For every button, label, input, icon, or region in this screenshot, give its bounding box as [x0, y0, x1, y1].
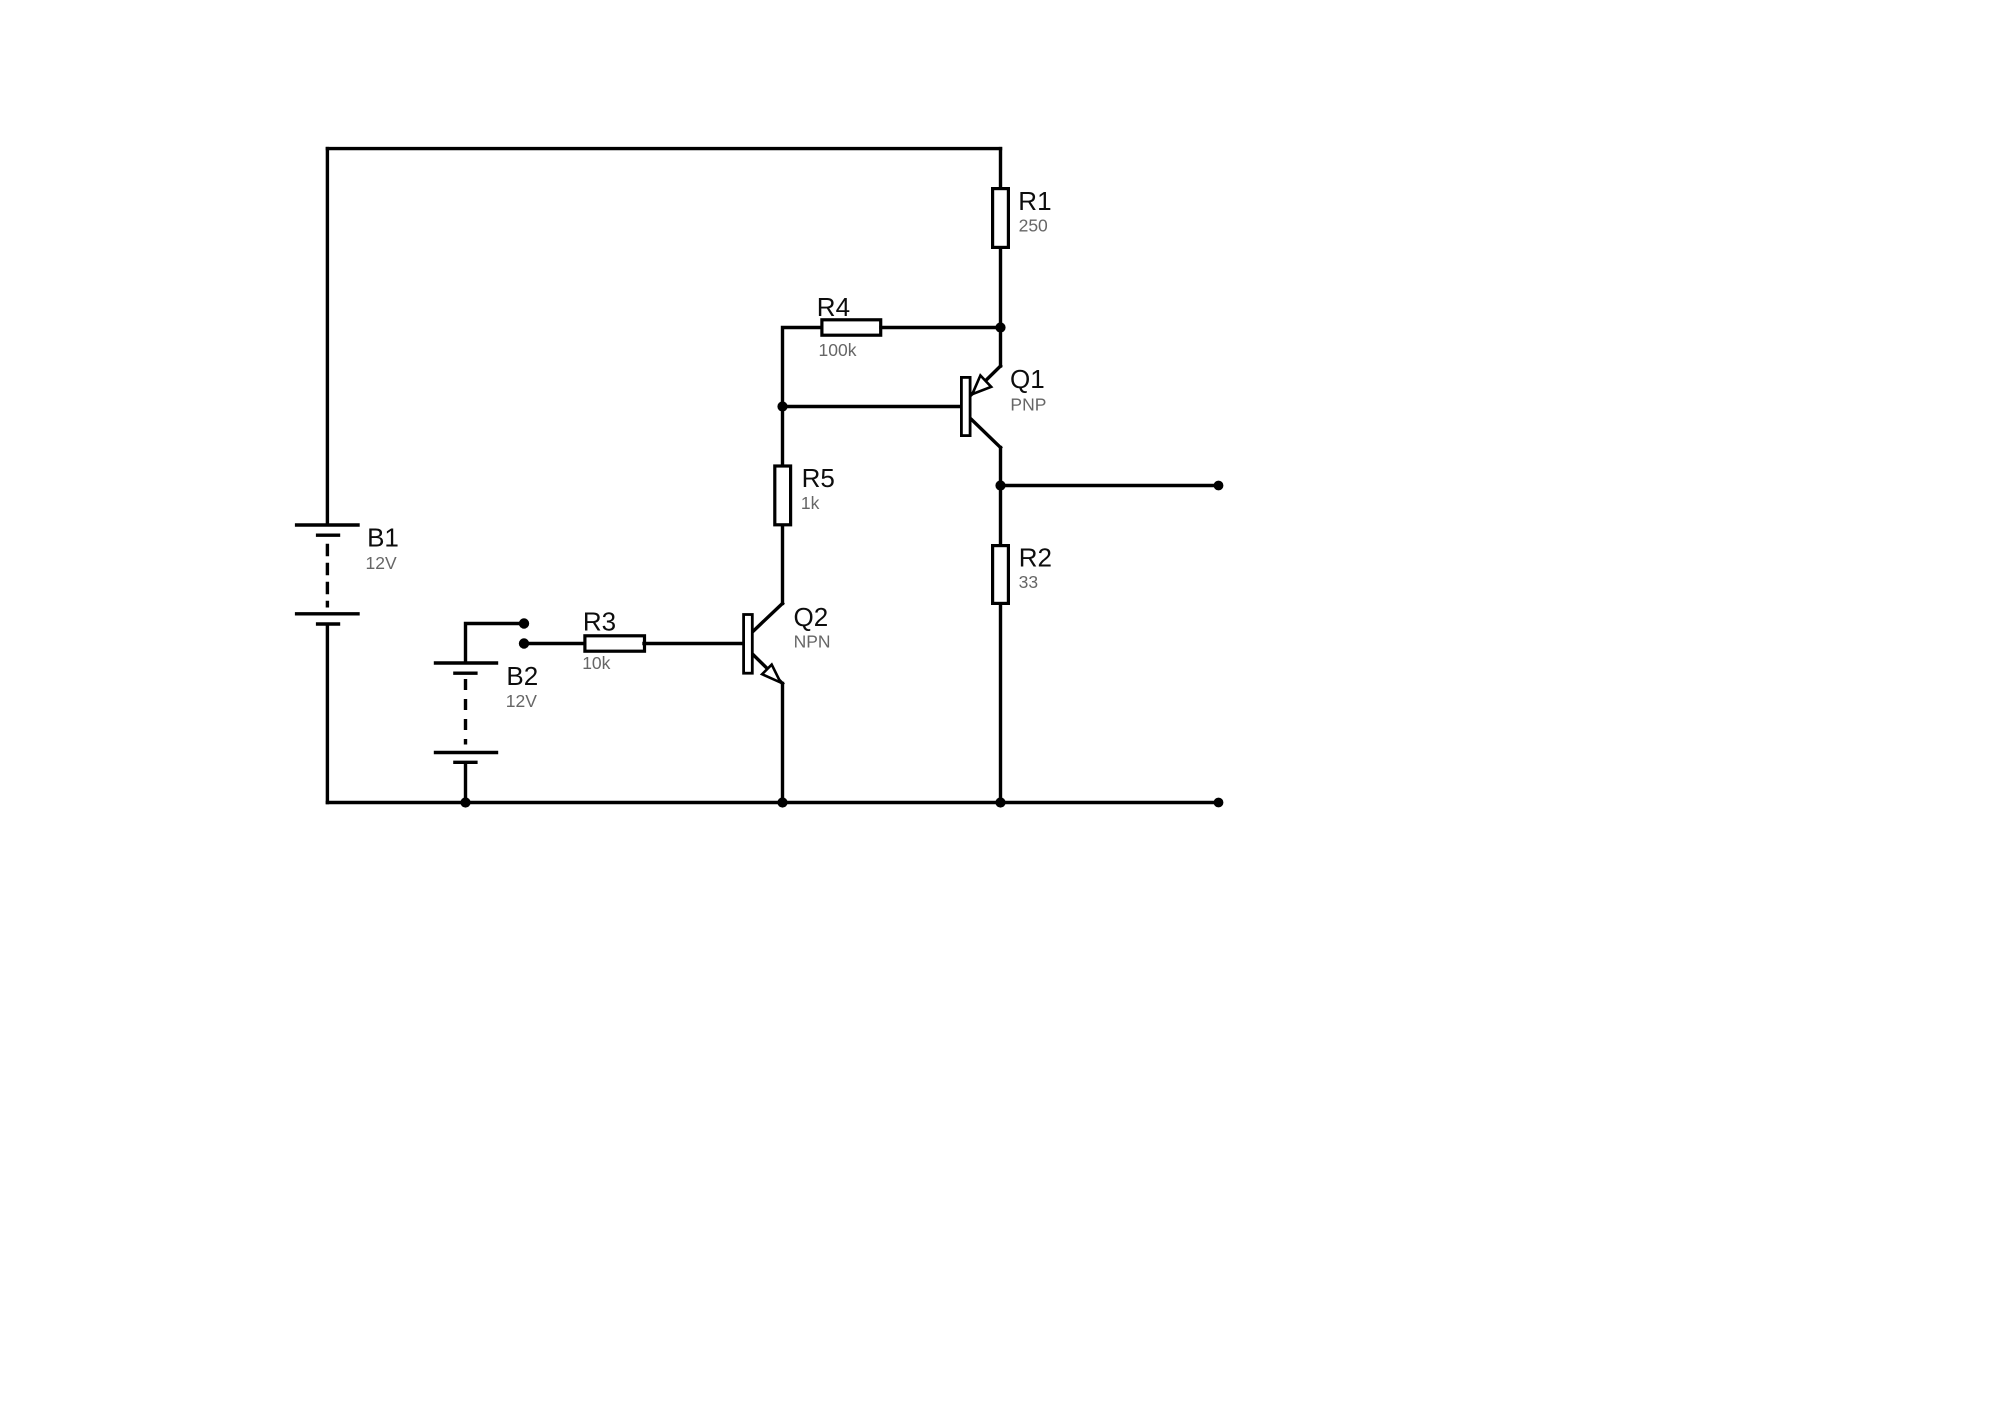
node C junction dot output — [995, 480, 1005, 490]
svg-text:R4: R4 — [817, 292, 850, 322]
svg-text:250: 250 — [1019, 216, 1048, 236]
label B2 value 12V — [506, 691, 537, 711]
resistor R4 — [822, 320, 881, 335]
label R3 value 10k — [582, 653, 610, 673]
label R4 value 100k — [819, 340, 857, 360]
node terminal dot output bottom — [1214, 798, 1224, 808]
resistor R5 — [775, 466, 791, 525]
wire R2 top stub — [999, 486, 1002, 547]
svg-text:R5: R5 — [802, 463, 835, 493]
label R5 — [802, 463, 835, 493]
wire R2 bottom — [999, 605, 1002, 803]
wire Q1 emitter vertical — [999, 328, 1002, 367]
wire top rail — [327, 147, 1000, 150]
svg-text:Q2: Q2 — [794, 602, 829, 632]
label Q1 — [1010, 364, 1045, 394]
label R1 — [1018, 186, 1051, 216]
resistor R2 — [993, 546, 1009, 604]
node junction dot Q2 emitter bottom — [777, 797, 787, 807]
wire R4 left corner — [783, 328, 823, 407]
wire R1 top stub — [999, 149, 1002, 189]
wire R3 right to Q2 base — [644, 642, 743, 645]
svg-text:12V: 12V — [366, 553, 397, 573]
label Q2 type NPN — [794, 632, 831, 652]
wire left rail lower — [326, 626, 329, 803]
node terminal dot output top — [1214, 481, 1224, 491]
label Q1 type PNP — [1010, 394, 1046, 414]
transistor Q1 — [961, 366, 1000, 448]
battery B2 — [436, 663, 497, 762]
svg-text:1k: 1k — [801, 493, 820, 513]
svg-text:B1: B1 — [367, 523, 399, 553]
label B1 — [367, 523, 399, 553]
label Q2 — [794, 602, 829, 632]
svg-text:100k: 100k — [819, 340, 857, 360]
node junction dot B2 bottom — [460, 797, 470, 807]
wire left rail upper — [326, 149, 329, 524]
label B1 value 12V — [366, 553, 397, 573]
wire Q1 base — [783, 405, 961, 408]
svg-text:10k: 10k — [582, 653, 610, 673]
wire output top — [1001, 484, 1219, 487]
node junction dot R2 bottom — [995, 797, 1005, 807]
svg-text:R1: R1 — [1018, 186, 1051, 216]
svg-text:33: 33 — [1019, 572, 1038, 592]
wire Q2 emitter vertical — [781, 684, 784, 803]
label R5 value 1k — [801, 493, 820, 513]
svg-text:NPN: NPN — [794, 632, 831, 652]
label R2 value 33 — [1019, 572, 1038, 592]
transistor Q2 — [744, 603, 783, 683]
node B junction dot R4/R5/base — [777, 401, 787, 411]
resistor R1 — [993, 189, 1009, 248]
svg-text:B2: B2 — [506, 661, 538, 691]
battery B1 — [297, 525, 358, 624]
svg-text:R2: R2 — [1019, 543, 1052, 573]
label R3 — [583, 607, 616, 637]
svg-text:PNP: PNP — [1010, 394, 1046, 414]
wire R5 bottom to Q2 collector — [781, 526, 784, 603]
resistor R3 — [585, 636, 645, 651]
wire R5 top stub — [781, 407, 784, 467]
wire B2 top L — [466, 624, 525, 662]
wire R4 right — [881, 326, 1001, 329]
svg-text:12V: 12V — [506, 691, 537, 711]
node R3 input terminal dot — [519, 638, 529, 648]
wire B2 bottom stub — [464, 764, 467, 803]
wire Q1 collector vertical — [999, 448, 1002, 486]
node B2 terminal dot — [519, 618, 529, 628]
node A junction dot R4/R1 — [995, 322, 1005, 332]
svg-text:R3: R3 — [583, 607, 616, 637]
label B2 — [506, 661, 538, 691]
wire bottom rail — [327, 801, 1218, 804]
wire R3 left — [524, 642, 586, 645]
label R4 — [817, 292, 850, 322]
label R1 value 250 — [1019, 216, 1048, 236]
label R2 — [1019, 543, 1052, 573]
svg-text:Q1: Q1 — [1010, 364, 1045, 394]
wire R1 bottom to node A — [999, 249, 1002, 328]
